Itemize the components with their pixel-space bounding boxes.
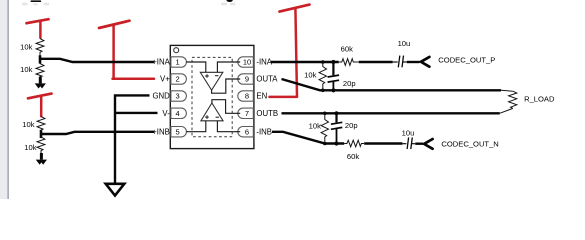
svg-text:60k: 60k [341,45,353,54]
resistor R 10k (top of divider B) [37,116,45,131]
resistor 10k feedback A [319,62,326,90]
IC body [170,45,254,148]
svg-text:V-: V- [162,109,170,118]
resistor R 10k (bottom of divider A) [36,64,44,77]
resistor R_LOAD leads [501,89,513,92]
svg-text:20p: 20p [345,121,358,130]
svg-text:60k: 60k [347,152,359,161]
resistor R 10k (top of divider A) [36,39,44,56]
op-amp A +/- [205,74,218,78]
pin 1 stub [171,57,187,67]
pin numbers [176,58,252,137]
svg-text:7: 7 [245,109,249,118]
wire OUTA to R_LOAD [282,79,502,90]
wire -INA 60k to 10u [359,61,393,63]
svg-text:CODEC_OUT_N: CODEC_OUT_N [441,140,498,149]
left panel edge line [7,0,9,199]
IC internal wires [186,62,240,132]
wire -INB 60k to 10u [364,142,402,144]
pin 3 stub [171,91,186,101]
pin 6 stub [238,127,253,137]
pin 1 indicator circle [174,48,179,53]
svg-text:9: 9 [245,75,249,84]
wire -INB diagonal [272,132,344,144]
wire pin1 to +inA [186,62,205,72]
svg-text:10k: 10k [20,65,32,74]
wire pin10 to -inA [217,62,240,72]
red supply T over R3 [28,94,52,99]
svg-text:GND: GND [152,92,170,101]
junction dots feedback A [321,60,339,146]
ground arrow (divider B) [36,153,47,167]
resistor 60k input A [339,59,359,66]
svg-text:3: 3 [176,92,180,101]
svg-text:10k: 10k [22,120,34,129]
wire V- to ground rail [115,112,158,114]
ground arrow (divider A) [35,77,46,91]
faint cut-off text ghosts [22,3,236,6]
pin 8 stub [238,91,253,101]
node tick divider B [40,130,43,138]
svg-text:10k: 10k [24,143,36,152]
svg-text:20p: 20p [343,79,356,88]
internal dashed box [192,57,232,136]
wire -INA row [271,61,339,63]
op-amp B +/- [205,115,219,119]
top cut-off text fragment bar [31,0,42,2]
pin 9 stub [238,74,253,84]
wire pin6 to -inB [217,121,240,132]
svg-text:10k: 10k [304,70,316,79]
svg-text:+INA: +INA [152,58,170,67]
resistor 60k input B [344,140,364,147]
wire divider A junction to +INA [40,59,154,62]
capacitor 20p feedback B [331,113,342,143]
resistor R 10k (bottom of divider B) [37,137,45,153]
top cut-off text fragment blob [227,0,233,2]
red supply T to V+ pin [99,21,130,28]
node tick divider A [39,55,42,63]
svg-text:8: 8 [245,92,249,101]
resistor R_LOAD zigzag [509,91,517,108]
pin stubs left [171,57,253,137]
wire OUTB to R_LOAD [282,112,500,114]
svg-text:1: 1 [176,58,180,67]
svg-text:R_LOAD: R_LOAD [524,95,555,104]
wire divider B junction to +INB [41,132,154,134]
capacitor 20p feedback A [328,62,340,90]
svg-text:10k: 10k [20,42,32,51]
left panel strip [0,0,8,199]
svg-text:10: 10 [243,58,251,67]
red supply T over R1 [27,19,49,23]
pin 4 stub [171,108,187,118]
svg-text:6: 6 [245,127,249,136]
svg-text:2: 2 [176,75,180,84]
capacitor 10u input B [402,137,415,149]
svg-text:EN: EN [256,92,267,101]
pin 7 stub [238,108,254,118]
port arrow CODEC_OUT_P [421,57,430,67]
resistor 10k feedback B [321,113,328,143]
wire pin5 to +inB [186,121,205,132]
port arrow CODEC_OUT_N [424,139,433,149]
wire outA to pin9 [212,79,241,93]
op-amp B triangle [201,103,223,121]
svg-text:-INA: -INA [256,58,272,67]
svg-text:OUTA: OUTA [256,75,278,84]
svg-text:10u: 10u [398,39,411,48]
pin 2 stub [171,74,186,84]
pin 10 stub [238,57,254,67]
red supply T to EN pin [280,5,310,12]
svg-text:V+: V+ [160,75,170,84]
wire 10u to port P [407,61,420,63]
svg-text:10u: 10u [402,129,415,138]
svg-text:CODEC_OUT_P: CODEC_OUT_P [438,56,495,65]
op-amp A triangle [200,72,223,90]
wire GND to ground rail [115,95,150,183]
svg-text:10k: 10k [309,122,321,131]
svg-text:OUTB: OUTB [256,109,278,118]
svg-text:4: 4 [176,109,180,118]
svg-text:5: 5 [176,127,180,136]
svg-text:-INB: -INB [256,127,272,136]
wire 10u to port N [415,142,423,144]
svg-text:+INB: +INB [152,127,170,136]
junction dots feedback B [323,112,327,116]
capacitor 10u input A [393,56,407,68]
ground symbol (hollow arrow, main rail) [106,184,125,196]
pin 5 stub [171,127,186,137]
wire outB to pin7 [212,100,240,114]
